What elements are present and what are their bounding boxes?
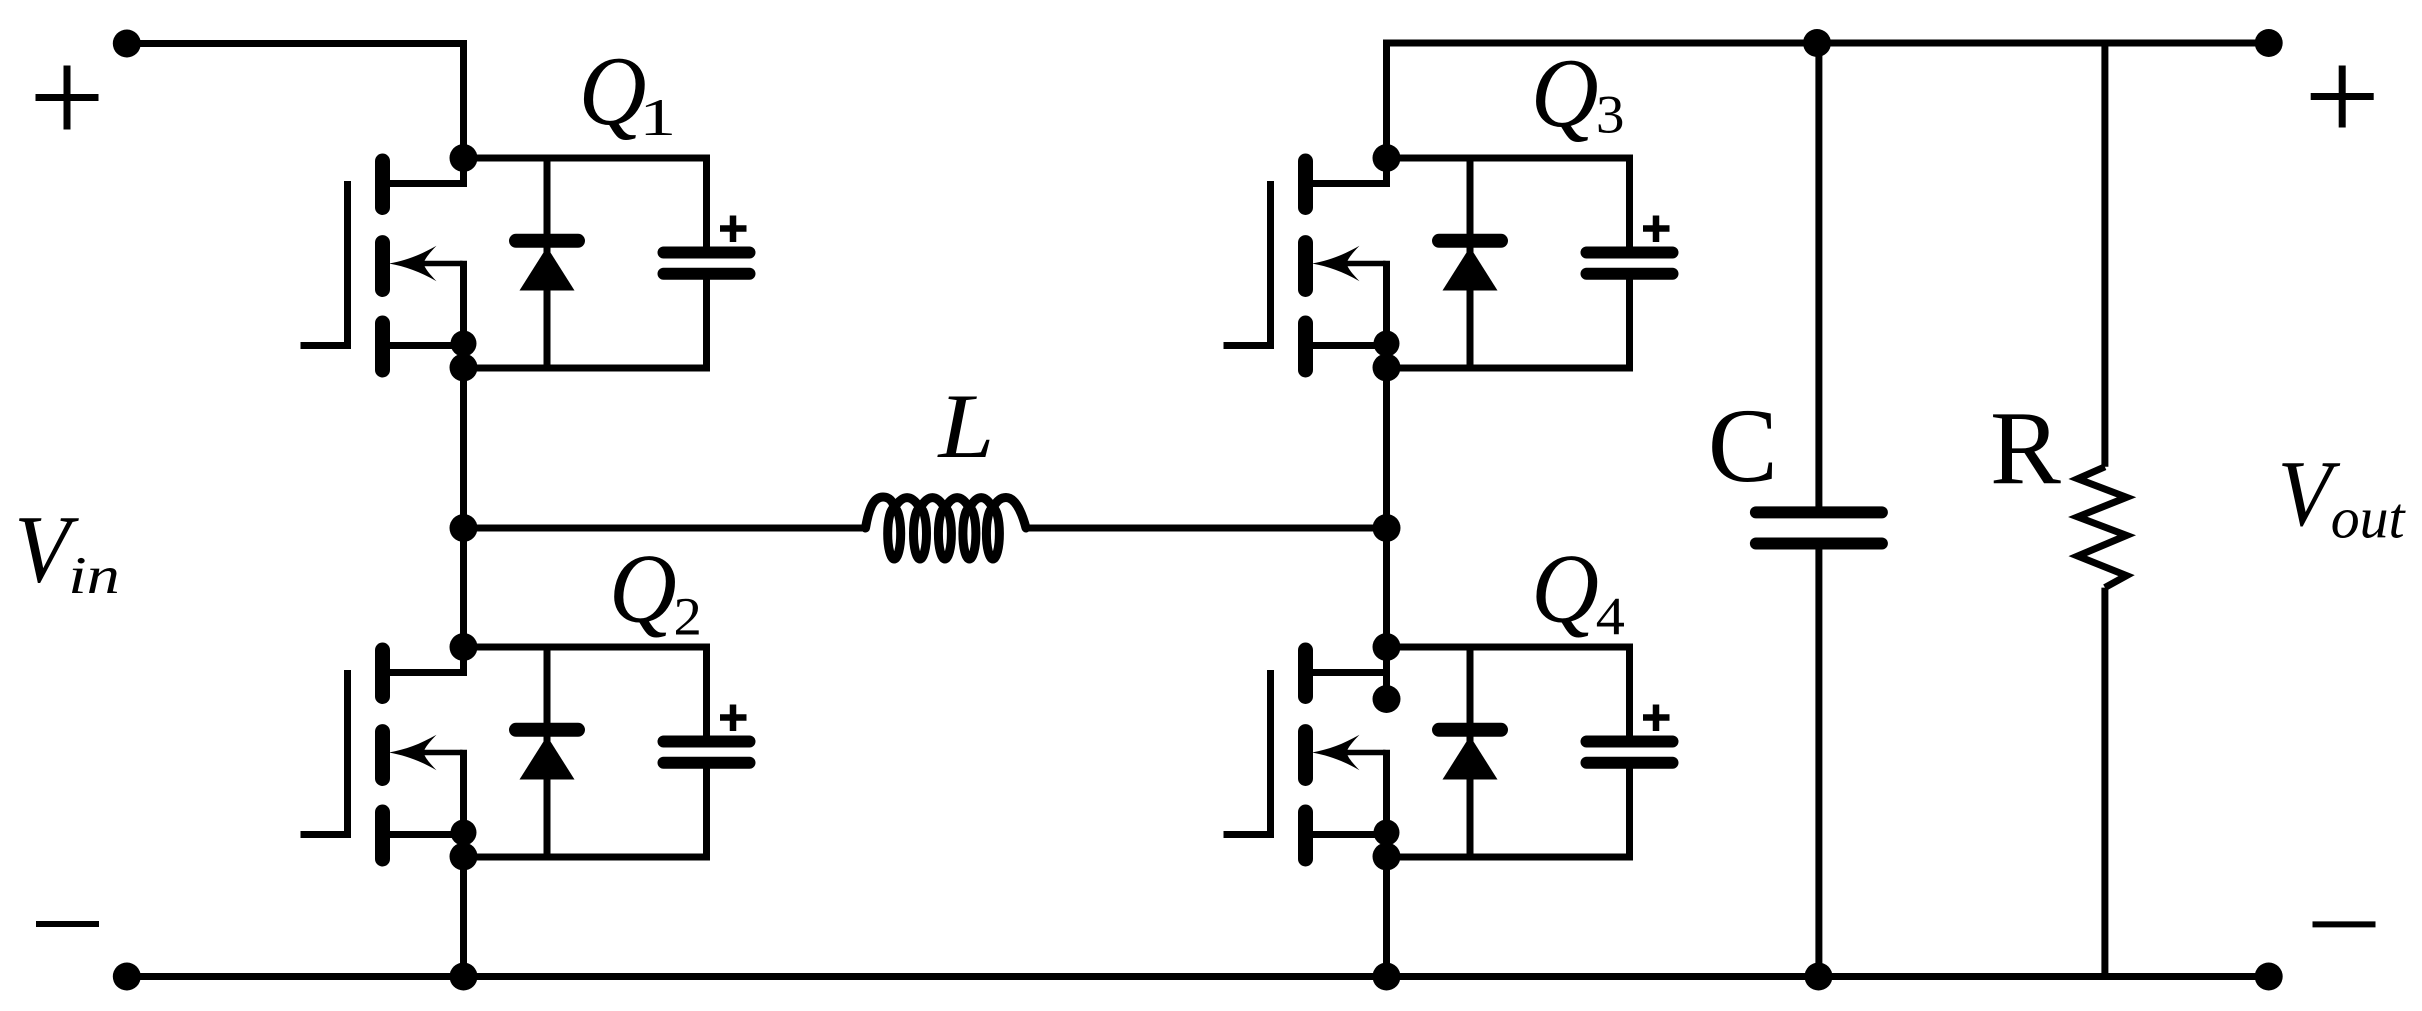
capacitor C — [1756, 512, 1882, 543]
node C bottom junction — [1805, 963, 1833, 991]
svg-text:2: 2 — [674, 586, 702, 647]
node Q4 source bottom junction — [1373, 963, 1401, 991]
svg-text:out: out — [2331, 485, 2407, 550]
wire output capacitor branch upper lead — [1815, 43, 1822, 509]
body diode of Q2 — [516, 647, 578, 857]
svg-text:L: L — [936, 375, 994, 477]
node Vout+ terminal — [2255, 29, 2283, 57]
node switch node B (right midpoint) — [1373, 514, 1401, 542]
label Vin minus sign — [36, 921, 99, 927]
resistor R — [2078, 467, 2127, 588]
node Q2 source bottom junction — [450, 963, 478, 991]
transistor Q2 — [301, 633, 478, 871]
wire Q4 source to bottom rail — [1383, 857, 1390, 977]
label Vout plus sign — [2311, 66, 2374, 128]
wire top-left from Vin+ terminal to Q1 drain — [127, 44, 464, 159]
label Vin plus sign — [36, 66, 99, 130]
wire resistor branch lower lead — [2101, 588, 2108, 977]
label Q4 — [1531, 533, 1625, 646]
svg-text:in: in — [68, 545, 120, 604]
transistor Q3 — [1224, 144, 1401, 382]
label Q2 — [609, 533, 702, 647]
svg-text:Q: Q — [579, 36, 647, 145]
wire bottom rail — [127, 973, 2269, 980]
wire right column Q3 source to Q4 drain — [1383, 368, 1390, 647]
snubber capacitor of Q2 with + polarity — [464, 647, 750, 857]
snubber capacitor of Q4 with + polarity — [1387, 647, 1673, 857]
svg-text:4: 4 — [1596, 587, 1625, 647]
snubber capacitor of Q3 with + polarity — [1387, 158, 1673, 368]
inductor L — [866, 497, 1027, 559]
node Q4 drain stub junction — [1373, 685, 1401, 713]
svg-text:C: C — [1708, 387, 1778, 504]
node C top junction — [1803, 29, 1831, 57]
body diode of Q3 — [1439, 158, 1501, 368]
wire resistor branch upper lead — [2101, 43, 2108, 467]
label Vout minus sign — [2313, 921, 2376, 927]
body diode of Q4 — [1439, 647, 1501, 857]
node Vin- terminal — [113, 963, 141, 991]
wire left column Q1 source to Q2 drain — [460, 368, 467, 647]
transistor Q1 — [301, 144, 478, 382]
wire Q2 source to bottom rail — [460, 857, 467, 977]
wire output capacitor branch lower lead — [1815, 547, 1822, 977]
node Vout- terminal — [2255, 963, 2283, 991]
wire middle left (switch node A to inductor) — [464, 525, 866, 532]
node Vin+ terminal — [113, 30, 141, 58]
node switch node A (left midpoint) — [450, 514, 478, 542]
transistor Q4 — [1224, 633, 1401, 871]
wire top right rail (Q3 drain up and right to Vout+ terminal) — [1387, 43, 2269, 158]
svg-text:Q: Q — [1531, 38, 1599, 147]
wire middle right (inductor to switch node B) — [1026, 525, 1387, 532]
label Q3 — [1531, 38, 1625, 147]
label Q1 — [579, 36, 677, 146]
svg-text:Q: Q — [609, 533, 677, 642]
svg-text:Q: Q — [1531, 533, 1599, 642]
svg-text:3: 3 — [1596, 85, 1625, 144]
snubber capacitor of Q1 with + polarity — [464, 158, 750, 368]
svg-text:1: 1 — [639, 88, 676, 146]
wire Q4 drain stub — [1383, 647, 1390, 699]
svg-text:R: R — [1990, 390, 2061, 506]
body diode of Q1 — [516, 158, 578, 368]
